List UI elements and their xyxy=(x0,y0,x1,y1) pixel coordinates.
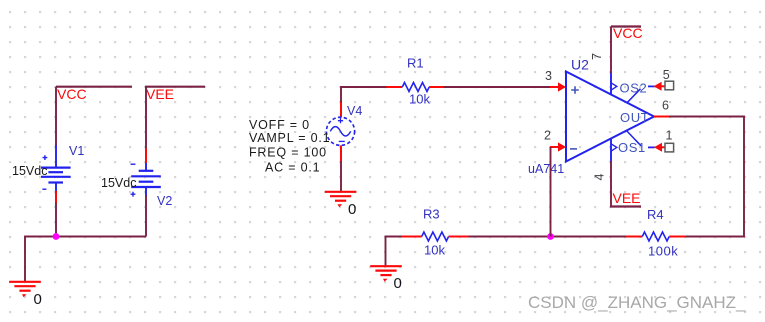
wire R3 ground leg xyxy=(386,237,403,266)
resistor R1 xyxy=(386,55,444,106)
U2 pin 7 (V+) xyxy=(590,53,611,95)
svg-text:0: 0 xyxy=(348,201,356,218)
svg-text:R3: R3 xyxy=(423,206,440,221)
U2 pin 6 (OUT) xyxy=(620,99,670,126)
svg-text:VCC: VCC xyxy=(613,25,643,41)
svg-text:V4: V4 xyxy=(347,104,362,118)
wire VEE bar to V2 xyxy=(145,87,147,150)
junction node (feedback) xyxy=(547,233,554,240)
svg-text:3: 3 xyxy=(545,69,552,83)
dc source V1 xyxy=(12,144,84,204)
wire VCC bar to U2 pin 7 xyxy=(610,27,612,74)
svg-text:R1: R1 xyxy=(407,55,424,70)
U2 pin 3 (non-inverting input) xyxy=(545,69,566,92)
ground 0 (V4) xyxy=(325,192,357,218)
svg-text:100k: 100k xyxy=(648,243,678,258)
svg-text:AC = 0.1: AC = 0.1 xyxy=(265,160,320,174)
U2 pin 1 (OS1) xyxy=(611,129,674,155)
svg-text:0: 0 xyxy=(34,291,42,308)
V4 parameter labels xyxy=(249,118,330,174)
wire V1 to node xyxy=(55,203,57,238)
wire node to left ground xyxy=(25,237,146,282)
svg-text:OS2: OS2 xyxy=(620,80,648,95)
sine source V4 xyxy=(326,101,362,162)
svg-text:V1: V1 xyxy=(69,144,84,158)
svg-text:10k: 10k xyxy=(409,92,430,107)
U2 pin 2 (inverting input) xyxy=(544,129,566,152)
svg-text:7: 7 xyxy=(590,53,604,60)
svg-text:1: 1 xyxy=(666,129,673,143)
svg-text:uA741: uA741 xyxy=(528,162,564,176)
wire U2 pin 4 to VEE bar xyxy=(610,161,612,207)
wire OUT to feedback loop xyxy=(669,117,744,237)
svg-text:OS1: OS1 xyxy=(618,140,646,155)
svg-text:FREQ = 100: FREQ = 100 xyxy=(249,146,327,160)
svg-text:15Vdc: 15Vdc xyxy=(101,176,136,190)
power symbol VEE (U2 bottom) xyxy=(610,190,641,207)
svg-text:2: 2 xyxy=(544,129,551,143)
power symbol VCC (left) xyxy=(56,86,132,102)
junction node (V1/V2 common) xyxy=(53,233,60,240)
ground 0 (left) xyxy=(9,282,42,308)
svg-text:OUT: OUT xyxy=(620,110,649,125)
wire V4 top to R1 xyxy=(341,87,387,102)
svg-text:VEE: VEE xyxy=(613,190,641,206)
svg-text:VAMPL = 0.1: VAMPL = 0.1 xyxy=(249,131,330,145)
wire feedback node to U2 pin 2 xyxy=(550,147,552,237)
wire R1 to U2 pin 3 xyxy=(444,86,551,88)
power symbol VEE (left) xyxy=(145,86,205,102)
wire V2 to node xyxy=(145,196,147,237)
wire VCC bar to V1 xyxy=(55,87,57,146)
wire V4 bottom to ground xyxy=(340,161,342,191)
svg-text:0: 0 xyxy=(394,275,402,292)
op-amp U2 body xyxy=(528,56,654,176)
svg-text:5: 5 xyxy=(663,68,670,82)
svg-text:6: 6 xyxy=(662,99,669,113)
svg-text:VCC: VCC xyxy=(57,86,87,102)
dc source V2 xyxy=(101,149,172,208)
ground 0 (R3) xyxy=(370,266,402,292)
U2 pin 4 (V-) xyxy=(593,138,612,181)
resistor R3 xyxy=(402,206,470,257)
svg-text:10k: 10k xyxy=(424,243,445,258)
svg-text:VEE: VEE xyxy=(146,86,174,102)
svg-text:V2: V2 xyxy=(157,194,172,208)
svg-text:CSDN @_ZHANG_GNAHZ_: CSDN @_ZHANG_GNAHZ_ xyxy=(528,293,746,312)
U2 pin 5 (OS2) xyxy=(611,68,674,103)
svg-text:VOFF = 0: VOFF = 0 xyxy=(249,118,310,132)
power symbol VCC (U2 top) xyxy=(611,25,643,41)
svg-text:U2: U2 xyxy=(571,56,589,72)
resistor R4 xyxy=(626,207,686,259)
svg-text:R4: R4 xyxy=(647,207,664,222)
svg-text:15Vdc: 15Vdc xyxy=(12,164,47,178)
wire R3 to feedback node xyxy=(469,236,628,238)
svg-text:4: 4 xyxy=(593,174,607,181)
